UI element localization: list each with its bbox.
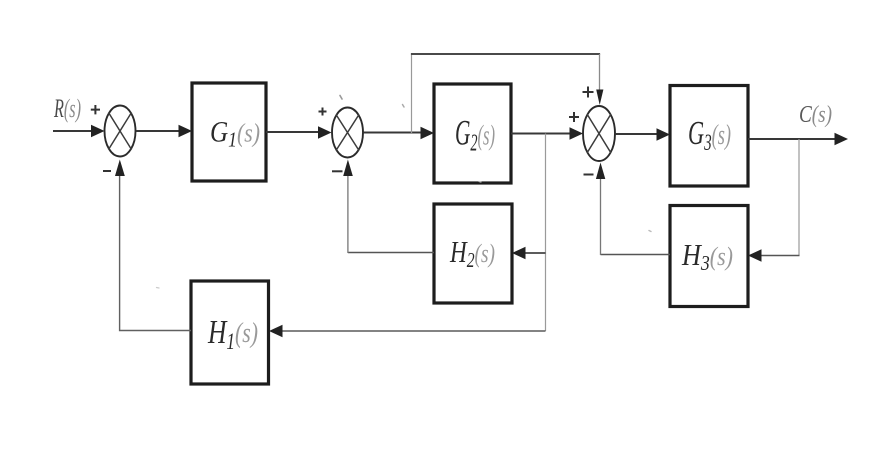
svg-text:C(s): C(s) bbox=[799, 102, 832, 128]
svg-text:R(s): R(s) bbox=[53, 94, 81, 123]
